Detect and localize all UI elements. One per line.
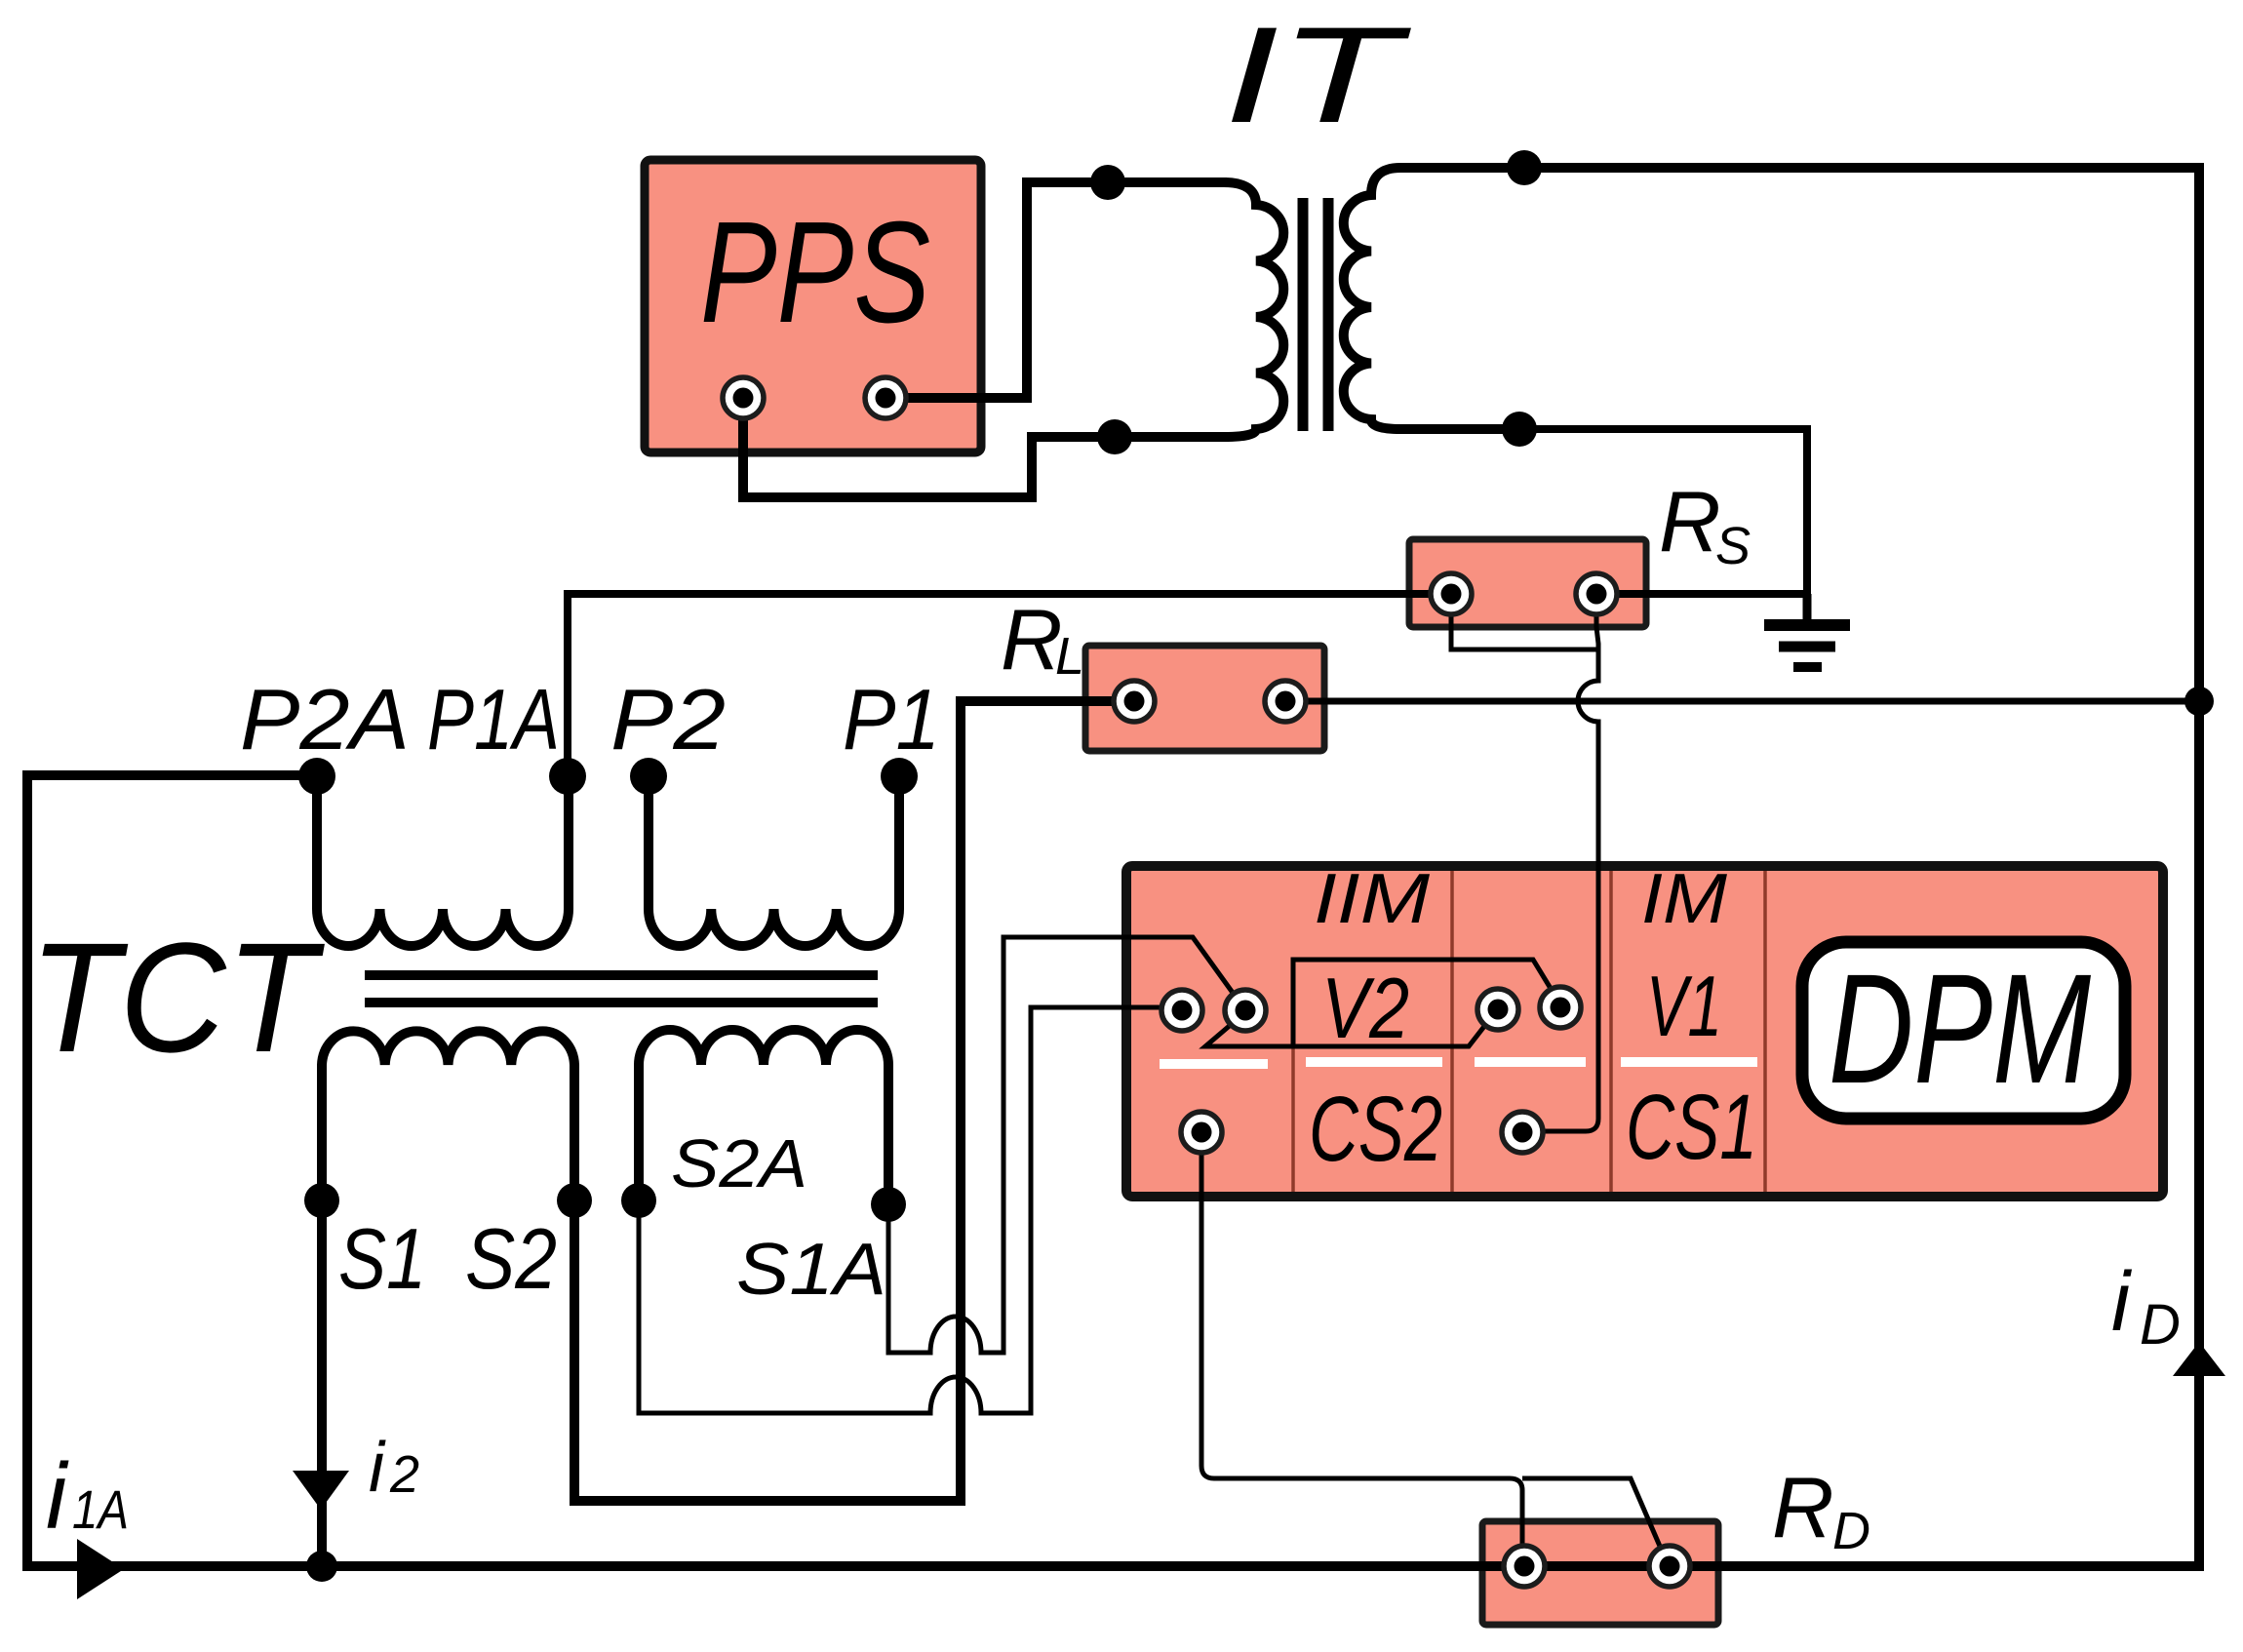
svg-text:CS1: CS1 (1626, 1076, 1757, 1179)
svg-text:1A: 1A (72, 1478, 129, 1540)
DPM terminal V2 left (1477, 989, 1518, 1030)
svg-text:P1: P1 (843, 671, 940, 767)
svg-text:2: 2 (389, 1445, 419, 1504)
svg-text:i: i (2111, 1255, 2133, 1349)
PPS left terminal (723, 377, 764, 418)
svg-text:S: S (1715, 517, 1751, 575)
node P1 (881, 758, 918, 795)
DPM display (1802, 942, 2125, 1119)
TCT secondary winding S1-S2 (322, 1031, 574, 1200)
resistor RD box (1482, 1521, 1718, 1625)
svg-text:D: D (2140, 1293, 2181, 1357)
transformer IT primary winding (1224, 182, 1283, 437)
svg-text:V1: V1 (1646, 958, 1722, 1054)
resistor RS box (1409, 539, 1646, 627)
node S1 (304, 1183, 339, 1218)
DPM divider 4 (1763, 871, 1767, 1192)
thin wire S1A to DPM IIM right terminal (hop over S2-RL wire) (888, 937, 1245, 1353)
transformer IT secondary winding (1344, 168, 1524, 429)
thin wire DPM CS2 to RD terminals (1201, 1136, 1522, 1566)
DPM terminal CS2 (1181, 1112, 1222, 1153)
wire PPS left terminal to IT primary bottom (743, 402, 1227, 497)
svg-text:R: R (1001, 591, 1063, 688)
wire RL right terminal to right edge (1285, 698, 2199, 705)
thin wire S2A to DPM IIM left terminal (hop over S2-RL wire) (639, 1007, 1182, 1413)
node S2A (621, 1183, 656, 1218)
svg-text:IT: IT (1224, 0, 1411, 151)
TCT primary winding P2-P1 (649, 776, 899, 946)
wire RS left terminal to P1A (568, 594, 1451, 774)
thin wire RS left terminal sense (1451, 597, 1598, 649)
svg-text:R: R (1659, 473, 1721, 570)
svg-text:i: i (46, 1444, 69, 1549)
junction dot S1 bottom (306, 1551, 337, 1582)
transformer IT core (1298, 198, 1309, 431)
svg-text:D: D (1832, 1502, 1870, 1560)
junction dot IT secondary top (1507, 150, 1542, 185)
junction dot IT primary bottom (1097, 419, 1132, 454)
DPM white strip 2 (1306, 1057, 1442, 1067)
wire PPS right terminal to IT primary top (885, 182, 1227, 398)
DPM white strip 4 (1621, 1057, 1757, 1067)
svg-text:R: R (1772, 1459, 1834, 1555)
svg-text:PPS: PPS (700, 192, 930, 353)
svg-text:IIM: IIM (1314, 860, 1430, 938)
ground (1803, 594, 1812, 622)
DPM box (1126, 866, 2163, 1197)
DPM terminal IIM left (1161, 990, 1202, 1031)
PPS box (645, 160, 981, 452)
DPM terminal IIM right (1225, 990, 1266, 1031)
RD left terminal (1504, 1546, 1545, 1587)
PPS right terminal (865, 377, 906, 418)
node P1A (549, 758, 586, 795)
internal wire to V2 right terminal (1293, 960, 1560, 1045)
wire S2 to RL left terminal (574, 701, 1136, 1501)
resistor RL box (1085, 646, 1324, 751)
DPM terminal CS1 (1502, 1112, 1543, 1153)
svg-text:S1: S1 (338, 1210, 426, 1307)
internal wire IIM right terminal to V2 left terminal (1205, 1011, 1496, 1046)
node S2 (557, 1183, 592, 1218)
arrow i2 (293, 1471, 349, 1510)
node P2 (630, 758, 667, 795)
svg-text:S2A: S2A (671, 1125, 807, 1201)
svg-text:S2: S2 (465, 1210, 557, 1307)
node S1A (871, 1187, 906, 1222)
RL left terminal (1114, 681, 1155, 722)
svg-text:P2: P2 (610, 671, 726, 767)
svg-text:IM: IM (1641, 860, 1727, 938)
arrow i1A (77, 1539, 124, 1599)
RL right terminal (1265, 681, 1306, 722)
TCT core (365, 970, 878, 980)
svg-text:TCT: TCT (29, 910, 326, 1084)
wire IT secondary bottom to resistor RS right terminal (1519, 429, 1807, 594)
node P2A (298, 758, 335, 795)
junction dot IT secondary bottom (1502, 412, 1537, 447)
TCT primary winding P2A-P1A (317, 776, 569, 946)
DPM white strip 3 (1475, 1057, 1586, 1067)
DPM terminal V2 right (1540, 987, 1581, 1028)
TCT secondary winding S2A-S1A (639, 1030, 888, 1204)
DPM divider 3 (1609, 871, 1613, 1192)
svg-text:CS2: CS2 (1309, 1078, 1442, 1181)
svg-text:P2A: P2A (240, 671, 410, 767)
svg-text:DPM: DPM (1829, 941, 2092, 1116)
svg-text:S1A: S1A (736, 1228, 886, 1310)
RS right terminal (1576, 573, 1617, 614)
svg-text:P1A: P1A (427, 671, 560, 767)
arrow iD (2173, 1342, 2225, 1376)
thin wire RS right terminal down to DPM CS1 terminal (hop over RL wire) (1534, 597, 1598, 1131)
svg-text:i: i (369, 1429, 386, 1507)
DPM divider 1 (1291, 1047, 1295, 1192)
svg-text:V2: V2 (1321, 960, 1409, 1056)
junction dot right edge (2184, 687, 2214, 716)
RS left terminal (1431, 573, 1472, 614)
DPM white strip 1 (1160, 1059, 1268, 1069)
wire S1 down to bottom (317, 1200, 327, 1566)
DPM divider 2 (1450, 871, 1454, 1192)
junction dot IT primary top (1090, 165, 1125, 200)
svg-text:L: L (1055, 627, 1084, 686)
RD right terminal (1649, 1546, 1690, 1587)
